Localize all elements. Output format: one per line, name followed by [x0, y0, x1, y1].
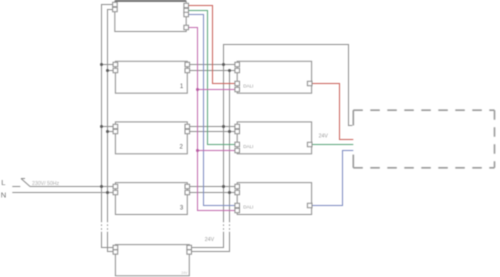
wire N input / row3 conductor B: [12, 192, 237, 194]
luminaire 1 pins: [113, 62, 190, 72]
controller left pins: [113, 2, 118, 11]
wire row1 conductor B: [108, 70, 238, 72]
wire L input with 230V/50Hz to row3: [12, 186, 20, 188]
junction dots left bus: [100, 63, 109, 194]
wire DALI red from controller pin1 to driver1: [186, 6, 237, 84]
wire 24V output green driver2 to dashed unit: [312, 144, 354, 146]
luminaire 1 box: [115, 61, 187, 93]
wire 24V output red driver1 to dashed unit: [312, 84, 354, 140]
luminaire 3 pins: [113, 184, 190, 194]
PSU 24V box: [115, 245, 189, 276]
svg-text:DALI: DALI: [243, 205, 253, 210]
controller right pins 1-4: [184, 3, 189, 29]
wire L-bus left conductor 1 (from controller pin to PSU): [102, 5, 116, 248]
svg-text:L: L: [1, 178, 5, 187]
DALI driver 2 box: [237, 122, 311, 154]
svg-text:N: N: [1, 191, 6, 200]
svg-text:230V/ 50Hz: 230V/ 50Hz: [32, 181, 60, 187]
wire row2 conductor A: [102, 126, 238, 128]
wire N-bus left conductor 2: [108, 10, 116, 252]
DALI driver 2 pins: [235, 124, 312, 152]
svg-text:DALI: DALI: [243, 144, 253, 149]
wire right mains bus 2: [189, 71, 229, 252]
wire DALI common magenta from controller pin4 to all drivers: [186, 28, 237, 211]
dashed remote unit box: [353, 110, 494, 168]
wire row3 conductor A: [30, 186, 237, 188]
luminaire 2 box: [115, 122, 187, 154]
wire DALI green from controller pin2 to driver2: [186, 11, 237, 145]
switch S1 blade: [21, 179, 30, 187]
DALI driver 3 box: [237, 183, 311, 215]
svg-text:24V: 24V: [205, 237, 215, 243]
PSU pins: [113, 245, 191, 254]
svg-text:24V: 24V: [181, 271, 188, 275]
luminaire 2 pins: [113, 124, 190, 133]
junction dots magenta DALI bus: [196, 88, 199, 152]
DALI driver 1 pins: [235, 62, 312, 91]
wire DALI blue from controller pin3 to driver3: [186, 15, 237, 206]
controller top edge dark: [115, 0, 186, 2]
wire row2 conductor B: [108, 131, 238, 133]
wire right mains bus 1 with top loop to dashed unit: [189, 45, 352, 248]
DALI driver 3 pins: [235, 184, 312, 212]
DALI controller U0 box: [115, 2, 186, 32]
DALI driver 1 box: [237, 61, 311, 93]
wire 24V output blue driver3 to dashed unit: [312, 151, 354, 206]
svg-text:DALI: DALI: [243, 83, 253, 88]
wire row1 conductor A (bus1 to DALI driver 1): [102, 64, 238, 66]
svg-text:24V: 24V: [319, 134, 329, 140]
junction dots right bus: [222, 63, 231, 194]
luminaire 3 box: [115, 183, 187, 215]
